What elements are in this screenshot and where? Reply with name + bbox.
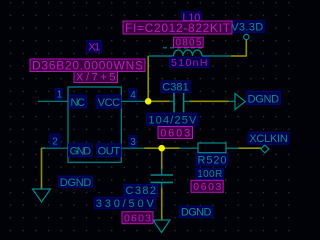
- svg-text:104/25V: 104/25V: [148, 114, 197, 126]
- svg-text:X1: X1: [88, 41, 100, 53]
- svg-text:NC: NC: [71, 97, 86, 109]
- svg-text:D36B20.0000WNS: D36B20.0000WNS: [32, 58, 143, 72]
- svg-text:GND: GND: [70, 145, 92, 157]
- svg-text:R520: R520: [198, 155, 227, 167]
- svg-text:330/50V: 330/50V: [96, 198, 155, 210]
- svg-text:3: 3: [130, 137, 136, 148]
- svg-text:OUT: OUT: [98, 145, 121, 157]
- svg-text:0603: 0603: [124, 213, 151, 225]
- svg-text:C382: C382: [126, 185, 157, 197]
- svg-text:X/7+5: X/7+5: [76, 72, 116, 84]
- svg-text:DGND: DGND: [60, 177, 92, 189]
- svg-text:1: 1: [57, 90, 63, 101]
- svg-text:4: 4: [130, 90, 136, 101]
- svg-text:100R: 100R: [197, 169, 222, 180]
- svg-text:2: 2: [52, 136, 58, 147]
- svg-text:0603: 0603: [193, 181, 221, 193]
- svg-text:DGND: DGND: [181, 207, 212, 219]
- svg-text:VCC: VCC: [98, 97, 121, 109]
- svg-text:0603: 0603: [160, 128, 190, 140]
- svg-text:0805: 0805: [175, 38, 201, 49]
- svg-text:XCLKIN: XCLKIN: [249, 133, 288, 145]
- svg-text:FI=C2012-822KIT: FI=C2012-822KIT: [125, 21, 231, 35]
- svg-text:DGND: DGND: [248, 93, 280, 105]
- svg-text:C381: C381: [162, 82, 189, 94]
- svg-text:510nH: 510nH: [171, 57, 208, 69]
- svg-text:V3.3D: V3.3D: [231, 21, 263, 33]
